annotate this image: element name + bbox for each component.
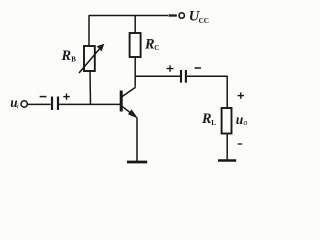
- svg-text:i: i: [17, 101, 19, 110]
- svg-text:C: C: [154, 44, 159, 52]
- svg-text:R: R: [144, 37, 155, 53]
- svg-text:L: L: [211, 119, 216, 127]
- svg-text:o: o: [243, 118, 247, 127]
- svg-text:R: R: [201, 111, 212, 127]
- svg-text:B: B: [71, 55, 76, 63]
- svg-text:CC: CC: [199, 17, 209, 25]
- svg-text:R: R: [61, 48, 72, 64]
